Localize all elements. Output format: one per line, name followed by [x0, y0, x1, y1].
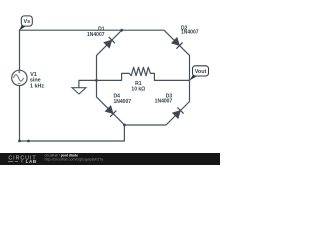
- svg-text:Vs: Vs: [24, 19, 31, 25]
- svg-text:1N4007: 1N4007: [114, 99, 132, 105]
- svg-text:10 kΩ: 10 kΩ: [131, 87, 145, 93]
- svg-text:1N4007: 1N4007: [87, 32, 105, 38]
- svg-text:1 kHz: 1 kHz: [30, 84, 44, 90]
- svg-text:http://circuitlab.com/c/gbzgwp: http://circuitlab.com/c/gbzgwp8vh27y: [45, 157, 104, 161]
- svg-text:1N4007: 1N4007: [181, 30, 199, 36]
- svg-text:1N4007: 1N4007: [155, 99, 173, 105]
- svg-text:LAB: LAB: [26, 159, 37, 164]
- svg-text:Vout: Vout: [195, 69, 207, 75]
